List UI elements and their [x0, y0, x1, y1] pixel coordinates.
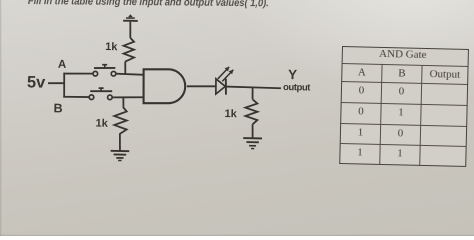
svg-text:1k: 1k — [224, 108, 237, 120]
svg-text:output: output — [283, 82, 311, 94]
svg-text:5v: 5v — [27, 73, 47, 91]
svg-text:B: B — [53, 101, 62, 115]
svg-text:1k: 1k — [105, 41, 118, 53]
svg-text:Y: Y — [288, 67, 297, 82]
svg-text:1k: 1k — [95, 117, 108, 129]
svg-text:A: A — [58, 59, 67, 71]
